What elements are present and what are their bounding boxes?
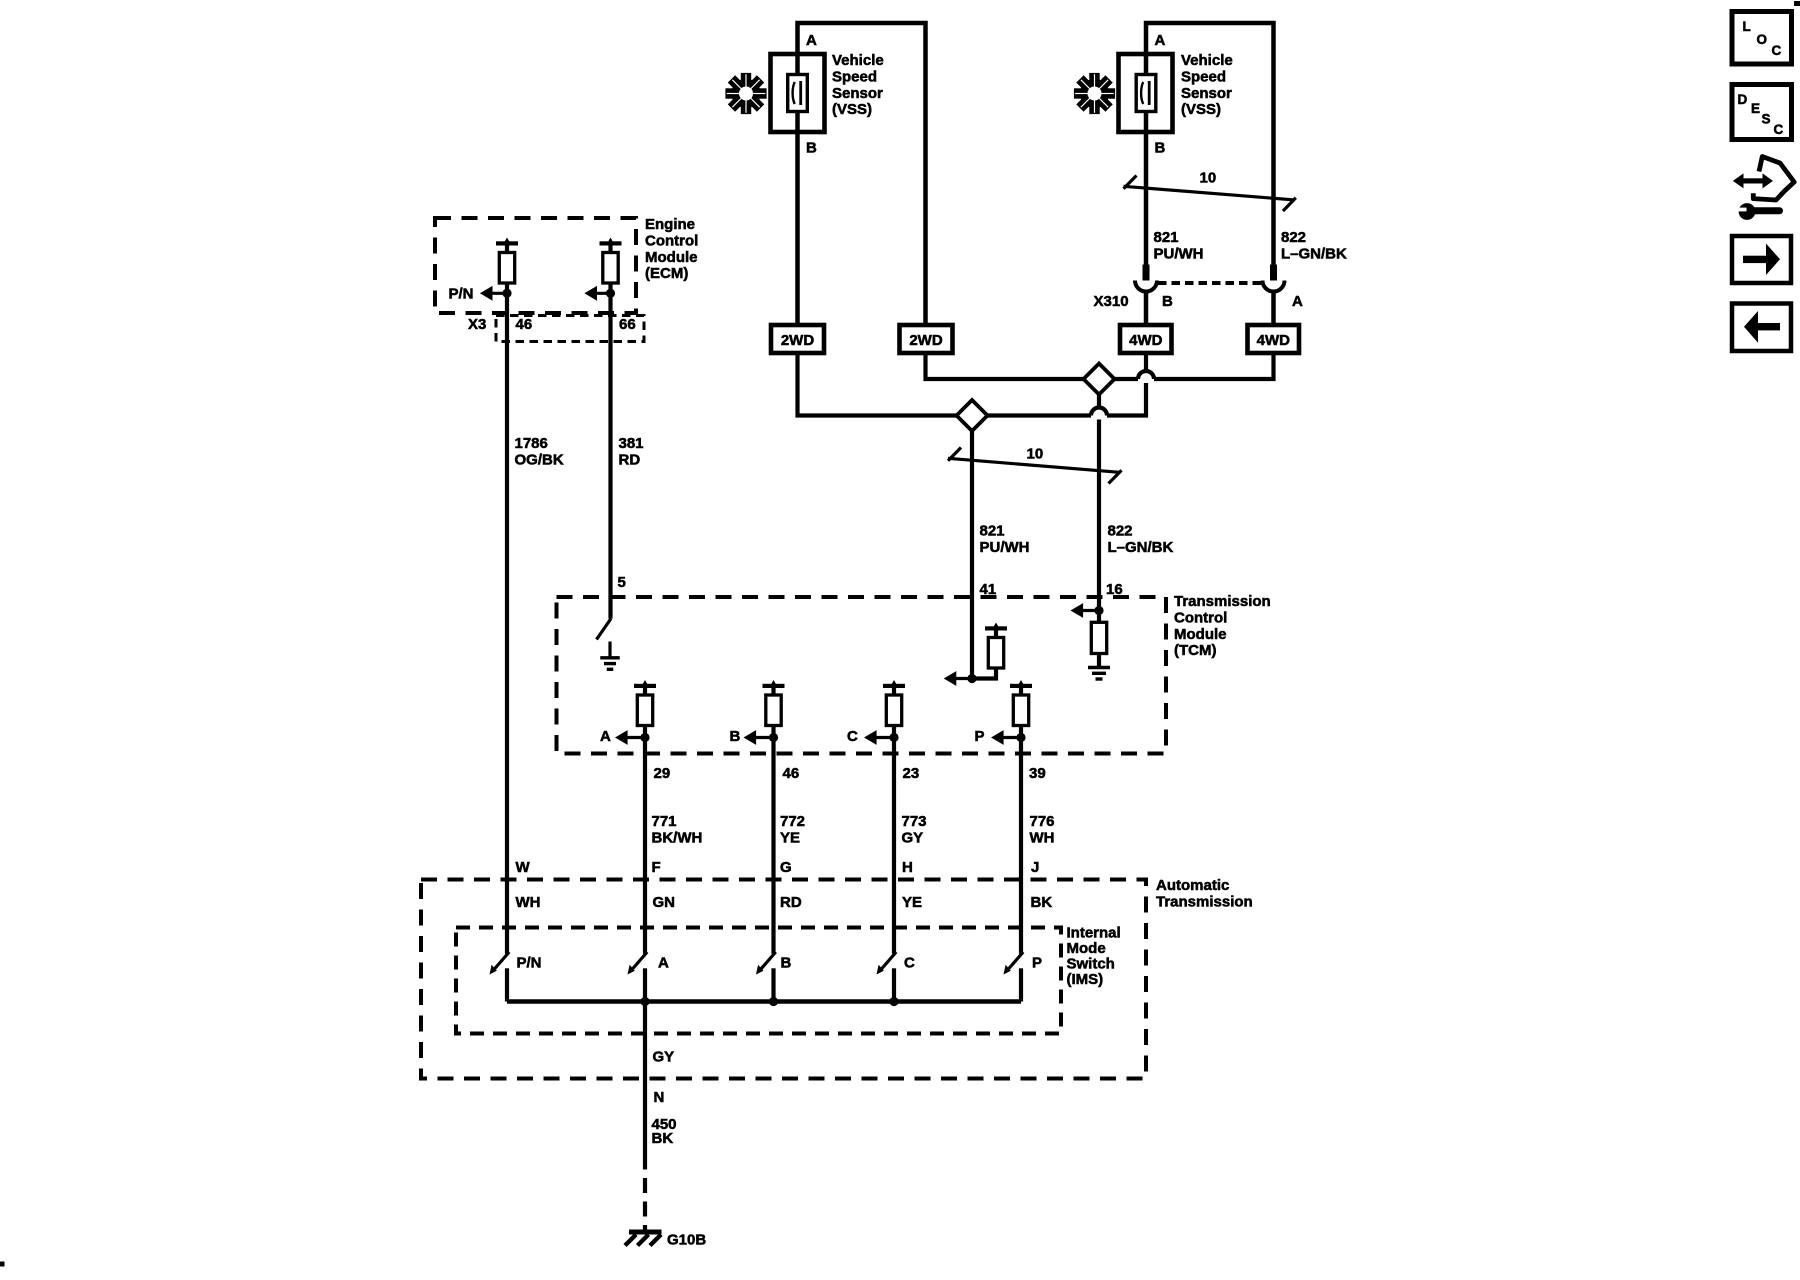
svg-text:Speed: Speed — [832, 69, 877, 86]
wire resistor B down through TCM edge to transmission — [771, 726, 775, 954]
IMS switch B blade — [756, 952, 776, 975]
IMS switch P lower contact wire — [1019, 968, 1023, 1001]
svg-text:G10B: G10B — [667, 1232, 706, 1249]
wire label 776 WH — [1030, 813, 1055, 846]
junction dot ECM 46 — [502, 289, 511, 298]
svg-text:P/N: P/N — [449, 286, 474, 303]
vehicle speed sensor B2 (VSS) component box — [1119, 54, 1173, 132]
label A (TCM) — [600, 728, 611, 745]
pull-up resistor TCM output A — [634, 680, 656, 726]
wire label 450 BK — [652, 1116, 677, 1147]
svg-text:Switch: Switch — [1067, 955, 1115, 972]
svg-text:E: E — [1751, 101, 1760, 116]
signal arrow P — [991, 730, 1021, 745]
icon box back arrow — [1732, 304, 1791, 352]
wire VSS1 pin A up-over to 2WD branch — [798, 23, 926, 325]
wire hop over 822 line (lower crossover) — [1091, 408, 1107, 416]
svg-text:WH: WH — [516, 894, 541, 911]
svg-text:O: O — [1757, 32, 1768, 47]
internal mode switch (IMS) dashed box — [456, 928, 1061, 1034]
IMS switch C blade — [877, 952, 897, 975]
junction dot TCM 41 — [967, 674, 976, 683]
svg-text:GY: GY — [902, 830, 924, 847]
svg-text:23: 23 — [903, 765, 920, 782]
svg-text:776: 776 — [1030, 813, 1055, 830]
svg-text:GN: GN — [653, 894, 676, 911]
label switch C — [904, 955, 915, 972]
svg-text:2WD: 2WD — [909, 332, 943, 349]
connector X310 pin A male terminal — [1270, 265, 1277, 281]
svg-text:(ECM): (ECM) — [645, 265, 688, 282]
signal arrow P/N (ECM 46) — [480, 286, 507, 301]
wire label 1786 OG/BK — [515, 435, 564, 468]
pin label A (VSS2) — [1155, 32, 1166, 49]
wire 4WD1 down to crossover — [1144, 353, 1148, 371]
gear icon of VSS B2 — [1074, 73, 1115, 114]
svg-text:P/N: P/N — [517, 955, 542, 972]
signal arrow (ECM 66) — [584, 286, 610, 301]
svg-text:B: B — [1162, 293, 1173, 310]
svg-text:B: B — [730, 728, 741, 745]
resistor in ECM pin 46 branch — [496, 238, 518, 284]
svg-text:Automatic: Automatic — [1156, 877, 1229, 894]
icon wiring jump (harness swoosh) — [1753, 157, 1794, 201]
svg-text:Engine: Engine — [645, 216, 695, 233]
connector X310 pin A female cup — [1263, 281, 1285, 292]
svg-text:Control: Control — [1174, 610, 1227, 627]
pull-up resistor TCM output B — [763, 680, 785, 726]
ground symbol TCM pin 16 — [1088, 668, 1110, 680]
pin label B (VSS1) — [806, 139, 817, 156]
pin label F — [652, 859, 661, 876]
svg-text:WH: WH — [1030, 830, 1055, 847]
pin label A (VSS1) — [806, 32, 817, 49]
svg-text:381: 381 — [619, 435, 644, 452]
svg-text:C: C — [847, 728, 858, 745]
icon wiring jump (wrench) — [1735, 203, 1783, 220]
pull-up resistor TCM output P — [1010, 680, 1032, 726]
label G10B — [667, 1232, 706, 1249]
svg-text:(VSS): (VSS) — [1181, 101, 1221, 118]
wire color label BK — [1031, 894, 1053, 911]
pin label 41 (TCM) — [980, 581, 997, 598]
svg-text:29: 29 — [654, 765, 671, 782]
wire 822 L-GN/BK down to TCM pin 16 — [1097, 420, 1101, 611]
icon wiring jump (double arrow) — [1733, 173, 1773, 188]
pull-up resistor TCM 41 branch — [972, 623, 1007, 679]
svg-text:C: C — [1774, 122, 1784, 137]
svg-text:10: 10 — [1200, 170, 1217, 187]
label Vehicle Speed Sensor (VSS) #2 — [1181, 52, 1233, 118]
pin label W — [516, 859, 531, 876]
pin label B (X310) — [1162, 293, 1173, 310]
IMS switch P blade — [1004, 952, 1024, 975]
svg-text:1786: 1786 — [515, 435, 548, 452]
IMS switch A lower contact wire — [643, 968, 647, 1001]
wire 381 RD from ECM 66 to TCM pin 5 — [608, 283, 612, 619]
svg-text:YE: YE — [902, 894, 922, 911]
pin label 46 (TCM) — [783, 765, 800, 782]
wire resistor P down through TCM edge to transmission — [1019, 726, 1023, 954]
signal arrow B — [744, 730, 774, 745]
svg-text:X310: X310 — [1094, 293, 1129, 310]
pin label N — [654, 1089, 665, 1106]
svg-text:B: B — [781, 955, 792, 972]
svg-text:PU/WH: PU/WH — [1154, 246, 1204, 263]
svg-text:A: A — [658, 955, 669, 972]
svg-text:(TCM): (TCM) — [1174, 642, 1216, 659]
svg-text:4WD: 4WD — [1257, 332, 1291, 349]
wire color label YE — [902, 894, 922, 911]
page mark bottom-left — [0, 1262, 5, 1267]
svg-text:S: S — [1762, 112, 1771, 127]
label Engine Control Module (ECM) — [645, 216, 698, 282]
svg-text:B: B — [1155, 139, 1166, 156]
connector X310 pin B female cup — [1135, 281, 1157, 292]
svg-text:771: 771 — [652, 813, 677, 830]
icon box DESC — [1732, 85, 1792, 140]
svg-text:P: P — [1032, 955, 1042, 972]
resistor TCM 16 branch — [1091, 611, 1106, 668]
svg-text:A: A — [806, 32, 817, 49]
IMS common bus wire — [507, 999, 1021, 1003]
IMS switch A blade — [628, 952, 648, 975]
svg-text:772: 772 — [780, 813, 805, 830]
wire below X310-A to 4WD box — [1271, 293, 1276, 326]
pin label 46 — [516, 316, 533, 333]
junction dot bus C — [889, 997, 898, 1006]
2WD box 1 — [771, 325, 824, 353]
label Automatic Transmission — [1156, 877, 1253, 910]
svg-text:Speed: Speed — [1181, 69, 1226, 86]
junction dot ECM 66 — [606, 289, 615, 298]
4WD box 2 — [1248, 325, 1300, 353]
junction dot bus B — [769, 997, 778, 1006]
svg-text:A: A — [1155, 32, 1166, 49]
wire VSS2 pin A up-over to 4WD-A branch — [1146, 23, 1274, 266]
IMS switch P/N lower contact wire — [505, 968, 509, 1001]
svg-text:BK: BK — [652, 1130, 674, 1147]
pin label 29 (TCM) — [654, 765, 671, 782]
junction dot TCM A — [640, 733, 649, 742]
svg-text:F: F — [652, 859, 661, 876]
pull-up resistor TCM output C — [883, 680, 905, 726]
wire label 773 GY — [902, 813, 927, 846]
svg-text:2WD: 2WD — [781, 332, 815, 349]
svg-text:P: P — [975, 728, 985, 745]
label switch A — [658, 955, 669, 972]
label Internal Mode Switch (IMS) — [1067, 924, 1121, 988]
label P (TCM) — [975, 728, 985, 745]
svg-text:(VSS): (VSS) — [832, 101, 872, 118]
automatic transmission dashed box — [421, 880, 1146, 1079]
svg-text:(IMS): (IMS) — [1067, 971, 1104, 988]
wire VSS2 pin B down to X310 — [1144, 112, 1149, 267]
junction dot TCM B — [769, 733, 778, 742]
svg-text:39: 39 — [1029, 765, 1046, 782]
wire label 771 BK/WH — [652, 813, 703, 846]
svg-text:66: 66 — [619, 316, 636, 333]
wire color label WH — [516, 894, 541, 911]
label switch P — [1032, 955, 1042, 972]
wire 1786 OG/BK from ECM 46 to IMS — [505, 283, 509, 954]
wire color label GN — [653, 894, 676, 911]
svg-text:822: 822 — [1281, 229, 1306, 246]
label X310 — [1094, 293, 1129, 310]
svg-text:PU/WH: PU/WH — [980, 539, 1030, 556]
wire 2WD2 down and right to diamond junction S1 — [926, 353, 1139, 379]
signal arrow TCM 41 — [944, 671, 972, 686]
pin label 16 (TCM) — [1106, 581, 1123, 598]
label B (TCM) — [730, 728, 741, 745]
ground symbol TCM pin 5 — [600, 658, 620, 670]
svg-text:RD: RD — [619, 452, 641, 469]
gear icon of VSS B1 — [725, 73, 766, 114]
wire label 822 L-GN/BK (lower) — [1108, 523, 1174, 556]
svg-text:YE: YE — [780, 830, 800, 847]
label P/N — [449, 286, 474, 303]
svg-text:822: 822 — [1108, 523, 1133, 540]
wire hop over 4WD1 line (upper crossover) — [1138, 371, 1154, 379]
wire color label RD — [780, 894, 802, 911]
svg-text:Mode: Mode — [1067, 940, 1106, 957]
svg-text:Internal: Internal — [1067, 924, 1121, 941]
svg-text:Module: Module — [645, 249, 698, 266]
svg-text:RD: RD — [780, 894, 802, 911]
chassis ground G10B — [625, 1232, 662, 1246]
svg-text:J: J — [1031, 859, 1039, 876]
svg-text:BK/WH: BK/WH — [652, 830, 703, 847]
svg-text:W: W — [516, 859, 531, 876]
junction dot TCM 16 — [1094, 606, 1103, 615]
switch to ground on TCM pin 5 — [597, 619, 612, 640]
svg-text:N: N — [654, 1089, 665, 1106]
svg-text:Sensor: Sensor — [832, 85, 883, 102]
svg-text:821: 821 — [980, 523, 1005, 540]
icon box next arrow — [1732, 236, 1791, 283]
svg-text:L–GN/BK: L–GN/BK — [1281, 246, 1347, 263]
label Vehicle Speed Sensor (VSS) #1 — [832, 52, 884, 118]
pin label A (X310) — [1292, 293, 1303, 310]
page mark top-right — [1794, 1, 1800, 6]
wire label 821 PU/WH (lower) — [980, 523, 1030, 556]
signal arrow A — [615, 730, 645, 745]
pin label B (VSS2) — [1155, 139, 1166, 156]
label 10 (lower) — [1027, 446, 1044, 463]
label X3 — [468, 316, 486, 333]
svg-text:821: 821 — [1154, 229, 1179, 246]
svg-text:Module: Module — [1174, 626, 1227, 643]
wire GY from IMS bus down — [643, 1002, 647, 1170]
wire resistor A down through TCM edge to transmission — [643, 726, 647, 954]
pin label 66 — [619, 316, 636, 333]
connector X310 pin B male terminal — [1143, 265, 1150, 281]
svg-text:L: L — [1743, 19, 1751, 34]
svg-text:773: 773 — [902, 813, 927, 830]
label Transmission Control Module (TCM) — [1174, 593, 1271, 659]
svg-text:L–GN/BK: L–GN/BK — [1108, 539, 1174, 556]
wire from hop to corner up to 4WD1 — [1107, 383, 1146, 416]
svg-text:C: C — [904, 955, 915, 972]
vehicle speed sensor B1 (VSS) component box — [771, 54, 825, 132]
2WD box 2 — [900, 325, 953, 353]
svg-text:D: D — [1738, 92, 1748, 107]
twisted-wire slash symbol upper — [1124, 176, 1296, 212]
junction dot TCM C — [889, 733, 898, 742]
connector X3 dashed box — [496, 316, 644, 342]
transmission control module (TCM) dashed box — [557, 597, 1167, 754]
engine control module (ECM) dashed box — [435, 218, 636, 313]
wire label 772 YE — [780, 813, 805, 846]
signal arrow TCM 16 — [1071, 603, 1100, 618]
svg-text:Vehicle: Vehicle — [832, 52, 884, 69]
svg-text:G: G — [780, 859, 792, 876]
diamond splice S1 — [1084, 364, 1115, 395]
pin label J — [1031, 859, 1039, 876]
svg-text:GY: GY — [653, 1049, 675, 1066]
label switch P/N — [517, 955, 542, 972]
wire S1 down to crossover gap — [1097, 395, 1101, 409]
svg-text:C: C — [1772, 43, 1782, 58]
dashed wire to ground G10B — [643, 1170, 647, 1233]
wire 2WD1 down and right to diamond junction S2 — [798, 353, 1092, 416]
svg-text:46: 46 — [783, 765, 800, 782]
svg-text:BK: BK — [1031, 894, 1053, 911]
ground stub TCM pin 5 — [608, 642, 611, 658]
resistor in ECM pin 66 branch — [600, 238, 622, 284]
svg-text:Transmission: Transmission — [1156, 894, 1253, 911]
pin label G — [780, 859, 792, 876]
svg-text:Vehicle: Vehicle — [1181, 52, 1233, 69]
label switch B — [781, 955, 792, 972]
icon box LOC — [1732, 12, 1792, 65]
wire VSS1 pin B down to 2WD box — [795, 112, 800, 326]
IMS switch P/N blade — [490, 952, 510, 975]
pin label H — [902, 859, 913, 876]
wire below X310-B to 4WD box — [1144, 293, 1149, 326]
wire 821 PU/WH down to TCM pin 41 — [970, 431, 974, 679]
IMS switch B lower contact wire — [771, 968, 775, 1001]
svg-text:B: B — [806, 139, 817, 156]
diamond splice S2 — [957, 400, 988, 431]
signal arrow C — [864, 730, 894, 745]
label 10 (upper) — [1200, 170, 1217, 187]
pin label 5 (TCM) — [618, 574, 626, 591]
label C (TCM) — [847, 728, 858, 745]
4WD box 1 — [1120, 325, 1172, 353]
svg-text:10: 10 — [1027, 446, 1044, 463]
dashed connector tie line X310 — [1158, 281, 1261, 285]
svg-text:A: A — [1292, 293, 1303, 310]
pin label 23 (TCM) — [903, 765, 920, 782]
svg-text:Transmission: Transmission — [1174, 593, 1271, 610]
svg-text:5: 5 — [618, 574, 626, 591]
svg-text:A: A — [600, 728, 611, 745]
twisted-wire slash symbol lower — [948, 448, 1122, 484]
wire label GY — [653, 1049, 675, 1066]
svg-text:Sensor: Sensor — [1181, 85, 1232, 102]
junction dot TCM P — [1016, 733, 1025, 742]
svg-text:H: H — [902, 859, 913, 876]
svg-text:Control: Control — [645, 233, 698, 250]
svg-text:4WD: 4WD — [1129, 332, 1163, 349]
wire label 822 L-GN/BK (upper) — [1281, 229, 1347, 262]
wire 4WD2 down and left to diamond junction S1 — [1154, 353, 1274, 379]
IMS switch C lower contact wire — [892, 968, 896, 1001]
wire label 381 RD — [619, 435, 644, 468]
svg-text:OG/BK: OG/BK — [515, 452, 564, 469]
wire label 821 PU/WH (upper) — [1154, 229, 1204, 262]
wire resistor C down through TCM edge to transmission — [892, 726, 896, 954]
svg-text:46: 46 — [516, 316, 533, 333]
svg-text:X3: X3 — [468, 316, 486, 333]
pin label 39 (TCM) — [1029, 765, 1046, 782]
junction dot bus A — [640, 997, 649, 1006]
